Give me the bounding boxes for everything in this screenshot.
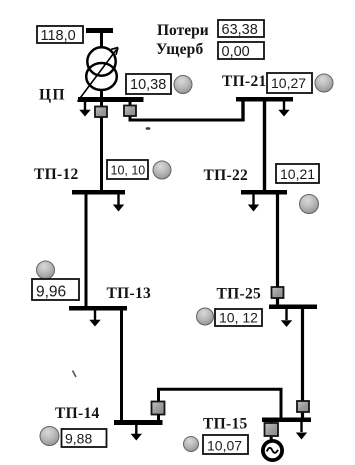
value box 10,38 <box>126 74 171 94</box>
value box 9,96 <box>32 279 79 301</box>
indicator ball 9,96 <box>37 261 55 279</box>
value box 10,07 <box>203 435 248 454</box>
label ТП-21 <box>222 73 267 90</box>
indicator ball ТП-12 <box>153 161 171 179</box>
value box 10,12 <box>215 309 262 326</box>
switch Q25 <box>272 287 284 298</box>
value box 118,0 <box>37 26 83 44</box>
wire bus to generator <box>270 422 273 440</box>
label Потери <box>157 22 209 39</box>
label Ущерб <box>156 41 203 58</box>
svg-text:9,96: 9,96 <box>36 284 66 301</box>
svg-text:0,00: 0,00 <box>222 44 250 60</box>
label ТП-14 <box>55 405 100 422</box>
value box 10,27 <box>267 73 312 93</box>
load arrow ТП-25 <box>281 309 292 327</box>
stray mark dot <box>146 127 151 130</box>
indicator ball ТП-21 <box>315 74 333 92</box>
wire Q2 drop <box>129 102 132 122</box>
indicator ball ТП-25 <box>197 308 214 325</box>
load arrow ТП-12 <box>113 195 124 212</box>
svg-text:9,88: 9,88 <box>65 431 92 447</box>
svg-text:10,38: 10,38 <box>130 77 166 93</box>
feeder ТП-12 to ТП-13 <box>85 194 88 306</box>
svg-text:10,21: 10,21 <box>280 166 315 182</box>
load arrow ТП-13 <box>89 310 100 327</box>
bus ЦП <box>78 97 144 102</box>
svg-text:ТП-25: ТП-25 <box>217 286 262 303</box>
switch Q1 (ЦП left) <box>95 107 107 118</box>
switch Q15g <box>265 423 279 436</box>
label ТП-22 <box>204 167 249 184</box>
load arrow ЦП <box>79 102 90 117</box>
indicator ball ТП-15 <box>184 437 199 452</box>
bus ТП-21 <box>236 97 293 102</box>
svg-text:Потери: Потери <box>157 22 209 39</box>
svg-text:10, 12: 10, 12 <box>219 310 258 326</box>
generator G1 <box>263 441 282 460</box>
wire ТП-14 to ТП-15 <box>159 389 282 418</box>
indicator ball ТП-14 <box>40 427 59 446</box>
label ТП-12 <box>34 166 79 183</box>
load arrow ТП-14 <box>131 425 142 441</box>
svg-text:63,38: 63,38 <box>222 22 258 38</box>
svg-text:ТП-22: ТП-22 <box>204 167 249 184</box>
stray tick mark <box>73 371 77 378</box>
svg-text:ТП-21: ТП-21 <box>222 73 267 90</box>
feeder ЦП to ТП-12 <box>100 102 103 190</box>
label ТП-25 <box>217 286 262 303</box>
label ТП-15 <box>203 416 248 433</box>
value box Потери 63,38 <box>218 20 264 38</box>
wire terminal to transformer <box>100 33 103 48</box>
svg-text:ТП-12: ТП-12 <box>34 166 79 183</box>
switch Q15 (from ТП-25) <box>297 401 309 412</box>
svg-text:10, 10: 10, 10 <box>111 164 146 178</box>
label ТП-13 <box>107 285 152 302</box>
svg-text:Ущерб: Ущерб <box>156 41 203 58</box>
bus ТП-14 <box>114 420 163 425</box>
tap-changer arrow <box>78 48 119 102</box>
svg-text:ТП-14: ТП-14 <box>55 405 100 422</box>
svg-text:118,0: 118,0 <box>41 28 76 44</box>
indicator ball ТП-22 <box>300 195 319 214</box>
feeder ТП-21 to ТП-22 <box>263 102 266 191</box>
wire riser to ТП-21 bus <box>241 99 244 122</box>
value box Ущерб 0,00 <box>218 42 264 60</box>
svg-text:ТП-13: ТП-13 <box>107 285 152 302</box>
indicator ball ЦП <box>174 76 192 94</box>
load arrow ТП-22 <box>248 195 259 212</box>
wire ЦП to ТП-21 <box>129 119 244 122</box>
top terminal bar <box>86 28 113 33</box>
value box 10,21 <box>276 164 319 183</box>
load arrow ТП-15 <box>296 422 307 440</box>
feeder ТП-25 to ТП-15 <box>301 309 304 418</box>
bus ТП-15 <box>262 418 311 423</box>
bus ТП-22 <box>241 190 287 195</box>
feeder ТП-13 to ТП-14 <box>120 310 123 420</box>
wire Q14 to bus ТП-14 <box>157 414 160 421</box>
bus ТП-12 <box>72 190 125 195</box>
bus ТП-25 <box>269 305 317 310</box>
svg-text:10,27: 10,27 <box>271 75 306 91</box>
value box 10,10 <box>107 160 148 179</box>
label ЦП <box>39 87 66 104</box>
switch Q2 (ЦП right) <box>124 106 136 117</box>
svg-text:ЦП: ЦП <box>39 87 66 104</box>
load arrow ТП-21 <box>278 102 289 117</box>
svg-text:ТП-15: ТП-15 <box>203 416 248 433</box>
transformer T1 <box>86 47 117 90</box>
wire transformer to bus <box>100 90 103 98</box>
switch Q14 <box>152 402 165 415</box>
feeder ТП-22 to ТП-25 <box>276 194 279 305</box>
svg-text:10,07: 10,07 <box>207 438 242 454</box>
bus ТП-13 <box>69 306 127 311</box>
value box 9,88 <box>62 429 107 447</box>
